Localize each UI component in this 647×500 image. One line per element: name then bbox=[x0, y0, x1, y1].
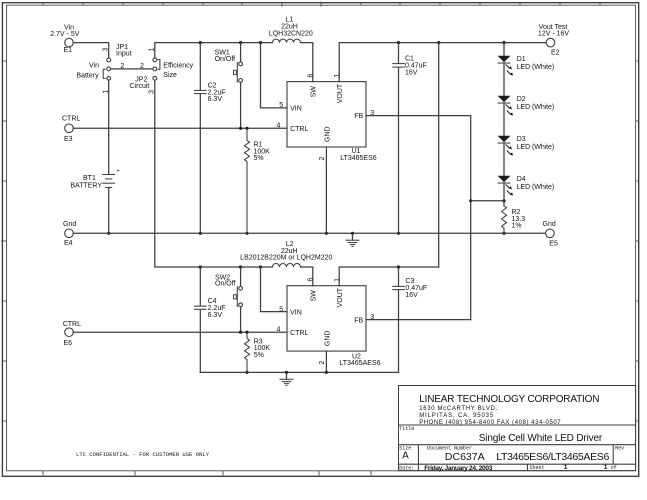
jumper JP1 bbox=[76, 44, 131, 94]
node R2 bottom bbox=[502, 232, 505, 235]
svg-text:DC637A: DC637A bbox=[445, 451, 485, 463]
wire L2 to SW pin U2 bbox=[301, 267, 313, 286]
capacitor C1 bbox=[392, 43, 427, 234]
wire VIN pin U2 bbox=[261, 267, 288, 312]
svg-text:4: 4 bbox=[277, 327, 281, 334]
connector E4 bbox=[63, 221, 76, 247]
connector E1 bbox=[50, 25, 80, 55]
svg-text:SW: SW bbox=[310, 86, 317, 98]
wire VOUT pin U2 up bbox=[339, 267, 439, 286]
node R1 bottom bbox=[245, 232, 248, 235]
svg-text:CTRL: CTRL bbox=[290, 126, 308, 133]
svg-text:Battery: Battery bbox=[76, 73, 99, 80]
svg-text:1: 1 bbox=[604, 464, 608, 471]
svg-text:4: 4 bbox=[277, 123, 281, 130]
svg-text:12V - 16V: 12V - 16V bbox=[538, 31, 569, 38]
title block frame bbox=[399, 386, 636, 471]
svg-text:SW: SW bbox=[310, 290, 317, 302]
diode D4 bbox=[498, 176, 555, 196]
svg-text:5%: 5% bbox=[254, 352, 264, 359]
svg-text:LED (White): LED (White) bbox=[517, 64, 555, 71]
wire CTRL rail upper bbox=[73, 127, 287, 129]
svg-text:C3: C3 bbox=[405, 278, 414, 285]
node SW1 top bbox=[239, 41, 242, 44]
node R3 top bbox=[245, 331, 248, 334]
node SW2 top bbox=[239, 265, 242, 268]
switch SW1 bbox=[215, 43, 243, 129]
svg-text:Circuit: Circuit bbox=[130, 83, 150, 90]
svg-text:5%: 5% bbox=[254, 155, 264, 162]
connector E3 bbox=[62, 116, 80, 143]
wire L1 to SW pin U1 bbox=[301, 43, 313, 82]
svg-text:BT1: BT1 bbox=[83, 175, 96, 182]
svg-text:LED (White): LED (White) bbox=[517, 184, 555, 191]
capacitor C4 bbox=[194, 267, 226, 372]
svg-text:3: 3 bbox=[103, 47, 110, 51]
svg-text:E5: E5 bbox=[549, 241, 558, 248]
svg-text:Gnd: Gnd bbox=[63, 221, 76, 228]
inductor L2 bbox=[240, 241, 332, 267]
resistor R3 bbox=[245, 332, 271, 372]
wire E1 to JP1 pin 3 bbox=[73, 43, 108, 58]
wire JP1 pin 2 to JP2 pin 2 bbox=[111, 68, 153, 70]
wire FB tee down to U2 FB bbox=[470, 201, 472, 320]
node C1 bottom bbox=[397, 232, 400, 235]
connector E5 bbox=[543, 221, 558, 247]
svg-text:5: 5 bbox=[279, 102, 283, 109]
node C1 top bbox=[397, 41, 400, 44]
svg-text:PHONE (408) 954-8400 FAX (408: PHONE (408) 954-8400 FAX (408) 434-0507 bbox=[419, 420, 561, 426]
svg-text:1630 McCARTHY BLVD.: 1630 McCARTHY BLVD. bbox=[419, 406, 497, 412]
capacitor C2 bbox=[194, 43, 226, 234]
svg-text:On/Off: On/Off bbox=[215, 281, 236, 288]
svg-text:2: 2 bbox=[140, 63, 144, 70]
wire JP1 pin 1 to battery bbox=[108, 80, 110, 174]
node U1 gnd bbox=[325, 232, 328, 235]
wire GND pin U2 bbox=[325, 351, 327, 372]
connector E6 bbox=[63, 321, 81, 347]
svg-text:Gnd: Gnd bbox=[543, 221, 556, 228]
svg-text:D1: D1 bbox=[517, 56, 526, 63]
svg-text:+: + bbox=[116, 169, 119, 175]
resistor R2 bbox=[502, 206, 526, 233]
svg-text:6.3V: 6.3V bbox=[208, 96, 223, 103]
svg-text:GND: GND bbox=[324, 126, 331, 142]
wire CTRL rail lower bbox=[73, 331, 287, 333]
svg-text:BATTERY: BATTERY bbox=[70, 182, 102, 189]
svg-text:E2: E2 bbox=[551, 49, 560, 56]
node C4 top bbox=[199, 265, 202, 268]
node FB tee bbox=[469, 199, 472, 202]
node C3 top bbox=[397, 265, 400, 268]
svg-text:LED (White): LED (White) bbox=[517, 104, 555, 111]
svg-text:2: 2 bbox=[319, 361, 326, 365]
svg-text:LINEAR TECHNOLOGY CORPORATION: LINEAR TECHNOLOGY CORPORATION bbox=[419, 394, 599, 405]
svg-text:A: A bbox=[402, 451, 409, 462]
svg-text:LT3465AES6: LT3465AES6 bbox=[339, 360, 380, 367]
node VIN wire top bbox=[259, 41, 262, 44]
svg-text:VIN: VIN bbox=[290, 310, 302, 317]
wire tie VOUT rails bbox=[438, 43, 440, 267]
svg-text:Input: Input bbox=[116, 50, 132, 57]
wire JP2 pin 1 up to input rail bbox=[155, 43, 273, 58]
svg-text:Efficiency: Efficiency bbox=[163, 62, 193, 69]
svg-text:LQH32CN220: LQH32CN220 bbox=[269, 30, 313, 37]
svg-text:Vin: Vin bbox=[89, 62, 99, 69]
node U2 gnd bbox=[325, 371, 328, 374]
wire D4 to R2 bbox=[503, 183, 505, 206]
svg-text:E6: E6 bbox=[64, 340, 73, 347]
wire VOUT pin U1 up bbox=[339, 43, 546, 82]
svg-text:LB2012B220M or LQH2M220: LB2012B220M or LQH2M220 bbox=[240, 254, 332, 261]
svg-text:D2: D2 bbox=[517, 96, 526, 103]
svg-text:6.3V: 6.3V bbox=[208, 312, 223, 319]
node SW2 bottom bbox=[239, 331, 242, 334]
wire LED chain top bbox=[503, 43, 505, 56]
ground symbol upper bbox=[346, 232, 360, 247]
capacitor C3 bbox=[392, 267, 427, 372]
svg-text:LT3465ES6: LT3465ES6 bbox=[340, 155, 377, 162]
svg-text:Friday, January 24, 2003: Friday, January 24, 2003 bbox=[424, 465, 493, 472]
svg-text:GND: GND bbox=[324, 331, 331, 347]
svg-text:E1: E1 bbox=[64, 47, 73, 54]
node C2 bottom bbox=[199, 232, 202, 235]
node VIN wire top lower bbox=[259, 265, 262, 268]
svg-text:LED (White): LED (White) bbox=[517, 144, 555, 151]
connector E2 bbox=[538, 24, 569, 56]
svg-text:D3: D3 bbox=[517, 136, 526, 143]
svg-text:FB: FB bbox=[354, 113, 363, 120]
resistor R1 bbox=[245, 128, 271, 233]
node battery-gnd bbox=[107, 232, 110, 235]
svg-text:VOUT: VOUT bbox=[337, 83, 344, 103]
node tie top bbox=[437, 41, 440, 44]
svg-text:Rev: Rev bbox=[615, 446, 624, 452]
svg-text:MILPITAS, CA. 95035: MILPITAS, CA. 95035 bbox=[419, 413, 494, 419]
node C2 top bbox=[199, 41, 202, 44]
svg-text:CTRL: CTRL bbox=[62, 116, 80, 123]
op-amp U1 LT3465ES6 bbox=[277, 73, 377, 161]
diode D3 bbox=[498, 136, 555, 156]
ground symbol lower bbox=[280, 371, 294, 386]
wire battery to gnd rail bbox=[108, 188, 110, 234]
svg-text:1%: 1% bbox=[512, 223, 522, 230]
node SW1 bottom bbox=[239, 127, 242, 130]
wire FB tee to LED chain bbox=[471, 200, 504, 202]
wire FB U2 bbox=[366, 319, 471, 321]
svg-text:CTRL: CTRL bbox=[63, 321, 81, 328]
svg-text:Single Cell White LED Driver: Single Cell White LED Driver bbox=[479, 433, 603, 444]
switch SW2 bbox=[215, 267, 243, 332]
svg-text:2: 2 bbox=[319, 157, 326, 161]
svg-text:5: 5 bbox=[279, 306, 283, 313]
svg-text:On/Off: On/Off bbox=[215, 56, 236, 63]
wire FB U1 bbox=[366, 116, 471, 201]
svg-text:D4: D4 bbox=[517, 176, 526, 183]
svg-text:Title: Title bbox=[399, 426, 414, 432]
svg-text:R2: R2 bbox=[512, 209, 521, 216]
wire gnd rail bbox=[73, 232, 545, 234]
svg-text:Sheet: Sheet bbox=[530, 465, 545, 471]
svg-text:1: 1 bbox=[564, 464, 568, 471]
op-amp U2 LT3465AES6 bbox=[277, 278, 381, 368]
node FB sense bbox=[502, 199, 505, 202]
svg-text:16V: 16V bbox=[405, 69, 418, 76]
jumper JP2 bbox=[130, 47, 194, 93]
wire VIN pin U1 bbox=[261, 43, 288, 108]
svg-text:LT3465ES6/LT3465AES6: LT3465ES6/LT3465AES6 bbox=[496, 451, 609, 463]
svg-text:VOUT: VOUT bbox=[337, 287, 344, 307]
wire lower gnd rail bbox=[200, 371, 398, 373]
svg-text:6: 6 bbox=[307, 73, 314, 77]
diode D1 bbox=[498, 56, 555, 76]
svg-text:Size: Size bbox=[163, 72, 177, 79]
node R1 top bbox=[245, 127, 248, 130]
svg-text:VIN: VIN bbox=[290, 106, 302, 113]
svg-text:of: of bbox=[611, 465, 617, 471]
wire D3-D4 bbox=[503, 143, 505, 176]
svg-text:Date:: Date: bbox=[399, 465, 414, 471]
node R3 bottom bbox=[245, 371, 248, 374]
svg-text:C1: C1 bbox=[405, 56, 414, 63]
battery BT1 bbox=[70, 169, 119, 190]
wire D2-D3 bbox=[503, 103, 505, 136]
svg-text:FB: FB bbox=[354, 317, 363, 324]
wire JP2 pin 3 down to lower input rail bbox=[155, 80, 273, 267]
svg-text:E4: E4 bbox=[64, 240, 73, 247]
svg-text:CTRL: CTRL bbox=[290, 330, 308, 337]
svg-text:16V: 16V bbox=[405, 292, 418, 299]
node LED chain top bbox=[502, 41, 505, 44]
svg-text:L2: L2 bbox=[286, 241, 294, 248]
inductor L1 bbox=[269, 17, 313, 43]
svg-text:6: 6 bbox=[307, 278, 314, 282]
svg-text:LTC CONFIDENTIAL - FOR CUSTOME: LTC CONFIDENTIAL - FOR CUSTOMER USE ONLY bbox=[76, 451, 210, 458]
svg-text:E3: E3 bbox=[64, 136, 73, 143]
wire D1-D2 bbox=[503, 63, 505, 96]
wire GND pin U1 bbox=[325, 147, 327, 233]
svg-text:2.7V - 5V: 2.7V - 5V bbox=[50, 31, 80, 38]
diode D2 bbox=[498, 96, 555, 116]
